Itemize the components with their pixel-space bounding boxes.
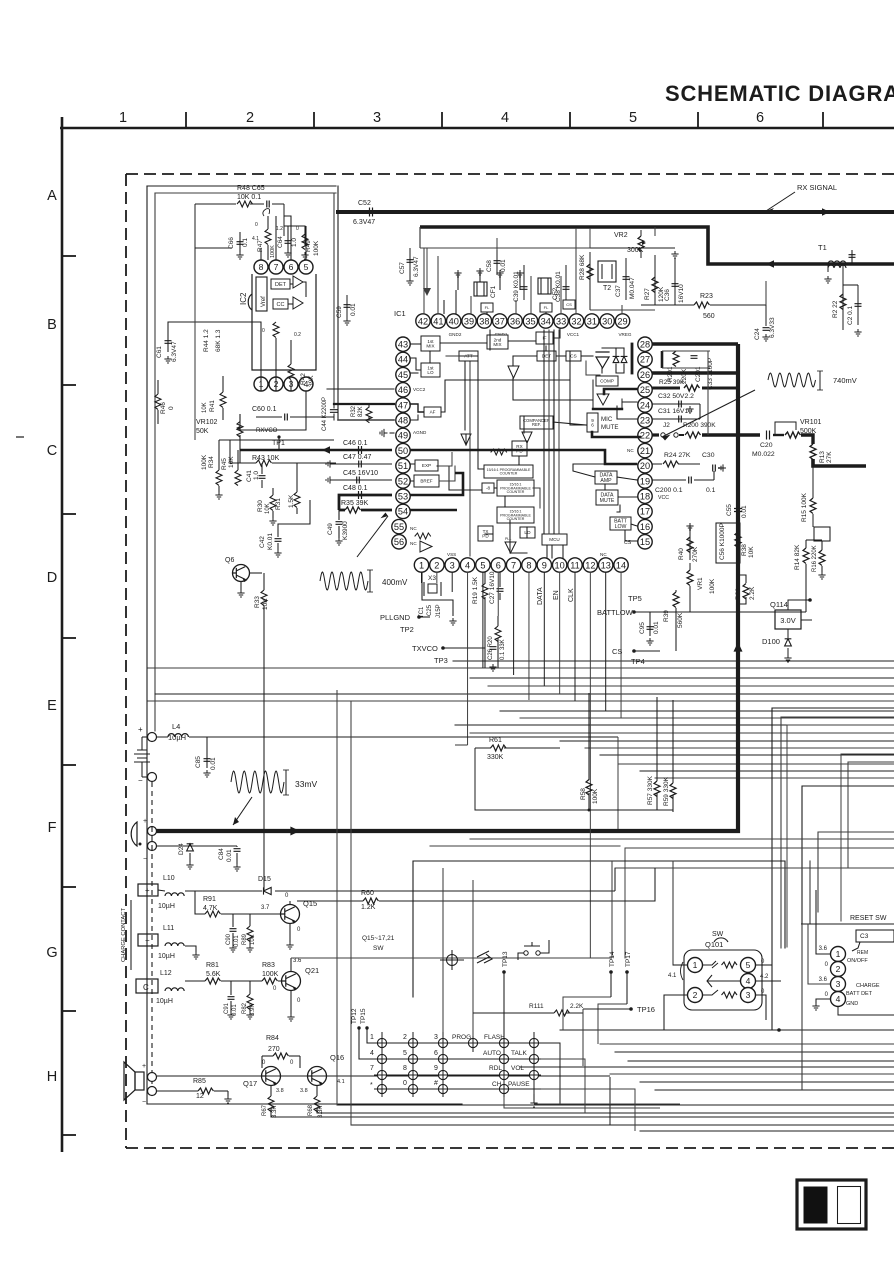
svg-text:C2 0.1: C2 0.1	[847, 305, 854, 325]
svg-text:5: 5	[403, 1050, 407, 1057]
svg-text:25: 25	[640, 385, 650, 395]
capacitor C24	[765, 305, 767, 326]
svg-text:R91: R91	[203, 896, 216, 903]
capacitor C85	[206, 737, 208, 768]
ground above R40	[686, 523, 693, 530]
key switch	[377, 1038, 386, 1047]
thick line to right	[813, 459, 866, 466]
wire lo	[526, 527, 528, 538]
resistor VR101	[785, 432, 801, 438]
svg-text:R48 C65: R48 C65	[237, 185, 265, 192]
wire corner f	[841, 754, 894, 921]
svg-text:46: 46	[398, 385, 408, 395]
resistor in Q101 a	[722, 962, 738, 968]
wire corner b2	[787, 725, 894, 947]
wire diode join	[616, 364, 624, 373]
connector pin 2	[831, 962, 846, 977]
svg-text:EXP: EXP	[422, 463, 431, 468]
ground stub	[454, 270, 461, 277]
svg-text:27: 27	[640, 355, 650, 365]
svg-text:COMP: COMP	[600, 379, 614, 384]
pin 8 IC2	[254, 260, 268, 274]
wire pin46	[327, 388, 394, 390]
resistor R23	[645, 304, 694, 306]
svg-text:52: 52	[398, 476, 408, 486]
key switch	[529, 1038, 538, 1047]
svg-text:0.01: 0.01	[500, 259, 507, 272]
svg-text:4.7K: 4.7K	[203, 905, 218, 912]
block RX PD	[512, 441, 527, 456]
wire mix-lo	[429, 351, 431, 363]
svg-text:6.3V47: 6.3V47	[353, 219, 375, 226]
svg-text:100K: 100K	[201, 454, 208, 470]
capacitor C64 resistor R49	[287, 232, 289, 250]
diode pair near pin 27	[596, 352, 609, 368]
block 2nd MIX	[487, 335, 508, 349]
ground stub	[516, 270, 523, 277]
svg-text:49: 49	[398, 431, 408, 441]
svg-text:MUTE: MUTE	[601, 424, 619, 431]
pin 11 IC1	[568, 558, 582, 572]
svg-text:21: 21	[640, 446, 650, 456]
capacitor C38	[565, 265, 567, 300]
dashed frame top	[126, 173, 894, 175]
wire pll	[510, 520, 527, 553]
svg-text:R57 330K: R57 330K	[647, 775, 654, 805]
svg-text:CH: CH	[492, 1081, 502, 1088]
svg-text:330K: 330K	[487, 754, 504, 761]
resistor R35	[345, 507, 361, 513]
svg-text:48: 48	[398, 416, 408, 426]
svg-text:0.01: 0.01	[350, 303, 357, 316]
row ticks	[62, 255, 76, 257]
svg-text:Vref: Vref	[261, 296, 267, 307]
wire pin stub	[443, 300, 445, 314]
wire diode bottom	[601, 368, 603, 373]
svg-text:R44 1.2: R44 1.2	[203, 329, 210, 352]
svg-text:13: 13	[601, 560, 611, 570]
svg-text:R201: R201	[667, 366, 674, 382]
wire trimmer	[621, 399, 623, 409]
svg-text:5.6K: 5.6K	[206, 971, 221, 978]
svg-text:0.01: 0.01	[226, 849, 233, 862]
pointer from 33mV	[233, 797, 252, 825]
capacitor C57	[409, 248, 411, 278]
Q101 contact 5	[741, 958, 756, 973]
resistor R41	[220, 392, 226, 408]
svg-text:C27 16V10: C27 16V10	[489, 571, 496, 604]
svg-text:2: 2	[434, 560, 439, 570]
wires IC2 bottom	[219, 439, 334, 441]
transformer T2	[598, 261, 616, 282]
pin 54 IC1	[396, 504, 410, 518]
svg-text:A: A	[47, 188, 57, 204]
wire bus h2	[470, 677, 894, 679]
svg-text:C32 50V2.2: C32 50V2.2	[658, 393, 694, 400]
svg-text:R14 82K: R14 82K	[794, 544, 801, 570]
wire bus h1	[148, 667, 894, 669]
svg-text:1: 1	[119, 110, 127, 126]
svg-text:0.1: 0.1	[242, 238, 249, 247]
thick wire pin50	[240, 449, 392, 452]
pin 39 IC1	[462, 314, 476, 328]
svg-text:CF1: CF1	[490, 285, 497, 298]
svg-text:0.1: 0.1	[706, 487, 716, 494]
connector pin 1	[831, 947, 846, 962]
wire mute down	[617, 505, 620, 512]
ground c32	[686, 406, 693, 413]
wire vertical pair a	[333, 193, 335, 404]
ground connector	[812, 1003, 819, 1010]
wire batt low to pin16	[631, 524, 637, 526]
svg-text:LOW: LOW	[615, 524, 627, 530]
wire pin48	[338, 419, 394, 421]
arrow up on bus	[734, 642, 743, 652]
svg-text:C59: C59	[336, 306, 343, 318]
key switch	[468, 1038, 477, 1047]
interior long verticals	[489, 330, 491, 350]
resistor R24	[652, 463, 662, 465]
svg-text:4: 4	[746, 976, 751, 986]
thick wire pin22 run	[702, 433, 760, 436]
key switch	[408, 1070, 417, 1079]
svg-text:36: 36	[510, 316, 520, 326]
svg-text:MUTE: MUTE	[600, 498, 615, 504]
resistor R47	[265, 229, 271, 244]
key switch	[438, 1054, 447, 1063]
svg-text:C41: C41	[246, 470, 253, 482]
block DATA AMP	[595, 471, 617, 484]
wires from bottom pins down	[421, 572, 423, 583]
svg-text:10K 0.1: 10K 0.1	[237, 194, 261, 201]
svg-text:C: C	[47, 443, 57, 459]
svg-text:-8: -8	[486, 486, 491, 491]
thick pin53 wire	[339, 495, 392, 510]
pin 6 IC1	[491, 558, 505, 572]
svg-text:34: 34	[541, 316, 551, 326]
svg-text:AF: AF	[430, 410, 436, 415]
wire conn pin4 left	[816, 999, 830, 1003]
pin 9 IC1	[537, 558, 551, 572]
wire ladder h7	[618, 763, 894, 765]
svg-text:C60 0.1: C60 0.1	[252, 406, 277, 413]
junction	[777, 1028, 781, 1032]
svg-text:R40: R40	[678, 548, 685, 560]
wire data mute to pin18	[618, 496, 637, 498]
wire loop left	[194, 204, 196, 260]
svg-text:D: D	[47, 570, 57, 586]
svg-text:C85: C85	[195, 756, 202, 768]
svg-text:SW: SW	[712, 931, 724, 938]
svg-text:23: 23	[640, 416, 650, 426]
wire mix-if	[508, 340, 536, 342]
svg-text:C200 0.1: C200 0.1	[655, 487, 683, 494]
capacitor C44	[331, 410, 338, 413]
svg-text:FL: FL	[485, 305, 490, 310]
wire diode top	[602, 347, 624, 349]
svg-text:TP4: TP4	[631, 657, 645, 666]
pin 23 IC1	[638, 413, 652, 427]
capacitor C39	[523, 265, 525, 300]
svg-text:C55: C55	[726, 504, 733, 516]
ceramic filter CF1	[474, 282, 487, 296]
wire bottom h1105	[337, 1104, 894, 1106]
svg-text:COUNTER: COUNTER	[507, 490, 525, 494]
svg-text:C58: C58	[486, 260, 493, 272]
svg-text:R36: R36	[735, 588, 742, 600]
svg-text:0.2: 0.2	[294, 332, 301, 338]
capacitor C36	[674, 258, 676, 305]
svg-text:33: 33	[556, 316, 566, 326]
amp triangle under DET	[508, 366, 519, 378]
wire lower h1061	[628, 1060, 894, 1062]
svg-text:RXVCO: RXVCO	[256, 428, 278, 434]
contact plus	[138, 884, 158, 896]
test point TP16	[629, 1007, 633, 1011]
wire pin20 to data amp	[573, 464, 637, 477]
svg-text:3: 3	[746, 990, 751, 1000]
svg-text:2: 2	[693, 990, 698, 1000]
svg-text:3: 3	[836, 979, 841, 989]
svg-text:6.3V47: 6.3V47	[171, 341, 178, 362]
svg-text:0.1 33K: 0.1 33K	[500, 639, 506, 660]
svg-text:22: 22	[640, 431, 650, 441]
arrow right on audio line	[290, 827, 300, 836]
resistor R40	[689, 530, 691, 560]
svg-text:TXVCO: TXVCO	[412, 644, 438, 653]
pin 2 IC1	[430, 558, 444, 572]
svg-text:R59 330K: R59 330K	[663, 776, 670, 806]
wire corner d	[818, 832, 894, 912]
svg-text:PAUSE: PAUSE	[508, 1081, 530, 1088]
svg-text:COUNTER: COUNTER	[500, 472, 518, 476]
key switch	[529, 1054, 538, 1063]
wire att to counter	[478, 361, 484, 469]
wire bus h5	[148, 700, 894, 702]
svg-text:3.6: 3.6	[819, 946, 828, 952]
svg-text:5: 5	[746, 960, 751, 970]
svg-text:4: 4	[465, 560, 470, 570]
block prog counter 2	[497, 480, 534, 496]
thick pin25 stub b	[702, 387, 738, 390]
svg-text:54: 54	[398, 507, 408, 517]
block MCU	[542, 534, 567, 545]
wire to tri	[512, 356, 514, 366]
wire VR101 wiper loop	[775, 422, 796, 435]
wire lower h1090	[655, 1089, 894, 1091]
resistor in Q101 b	[722, 992, 738, 998]
switch arm a	[703, 961, 716, 965]
svg-text:CS: CS	[570, 354, 576, 359]
svg-text:C49: C49	[327, 523, 334, 535]
contact minus	[138, 934, 158, 946]
pin 1 IC2	[254, 377, 268, 391]
svg-text:LO: LO	[427, 370, 434, 375]
thick pin26 stub	[648, 371, 738, 374]
svg-text:VR102: VR102	[196, 419, 218, 426]
momentary switch symbol	[524, 951, 528, 955]
svg-text:4: 4	[836, 994, 841, 1004]
wire long vertical b	[350, 701, 352, 1125]
wire long vertical a	[336, 690, 338, 1105]
svg-text:TP1: TP1	[272, 440, 285, 447]
svg-text:R19 1.5K: R19 1.5K	[472, 576, 479, 604]
wire c64 r49 top	[284, 226, 305, 232]
svg-text:C: C	[143, 983, 149, 992]
thick comp to pin25	[604, 389, 637, 394]
svg-text:L12: L12	[160, 970, 172, 977]
svg-text:28: 28	[640, 340, 650, 350]
svg-text:C36: C36	[664, 289, 671, 301]
ground stub	[496, 270, 503, 277]
pin 49 IC1	[396, 428, 410, 442]
svg-text:27K: 27K	[826, 451, 833, 463]
svg-text:1: 1	[836, 949, 841, 959]
svg-text:R82: R82	[242, 1002, 248, 1014]
block DET	[537, 351, 556, 361]
svg-text:0.01: 0.01	[234, 935, 240, 947]
wire corner e	[625, 848, 894, 958]
wire pin51	[333, 463, 392, 465]
ground x3	[449, 618, 456, 625]
capacitor C20	[767, 431, 770, 440]
svg-text:MCU: MCU	[549, 537, 559, 542]
wire C49	[338, 510, 340, 520]
capacitor C95	[649, 612, 651, 636]
svg-text:100K: 100K	[313, 240, 320, 256]
block IF	[536, 332, 553, 344]
svg-text:11: 11	[570, 560, 580, 570]
svg-text:39K: 39K	[308, 375, 315, 387]
pin 3 IC2	[284, 377, 298, 391]
wire att in2	[446, 355, 459, 357]
svg-text:TP12: TP12	[351, 1008, 358, 1024]
svg-text:7: 7	[370, 1065, 374, 1072]
svg-text:IC1: IC1	[394, 309, 406, 318]
wire conn left vertical	[801, 924, 803, 1090]
wire ladder h5	[585, 747, 894, 749]
wire bus h4	[155, 693, 894, 695]
wire ladder h9	[655, 777, 894, 779]
key switch	[377, 1070, 386, 1079]
svg-text:VR1: VR1	[697, 577, 704, 590]
svg-text:20: 20	[640, 461, 650, 471]
svg-text:6: 6	[496, 560, 501, 570]
vertical wire right of IC	[765, 281, 767, 305]
svg-text:Q21: Q21	[305, 966, 319, 975]
svg-text:NC: NC	[600, 552, 607, 557]
wire top inner	[155, 192, 336, 194]
MCU bundle wires	[543, 330, 545, 534]
pin 4 IC1	[460, 558, 474, 572]
R201 C201 between pins	[661, 351, 664, 368]
wire pin52	[333, 479, 392, 481]
wire conn pin3 left	[808, 924, 830, 984]
thick second line	[420, 227, 894, 264]
svg-text:R42: R42	[300, 373, 307, 385]
wire ladder h2	[455, 724, 894, 726]
pin 50 IC1	[396, 443, 410, 457]
svg-text:C91: C91	[224, 1002, 230, 1014]
pin 7 IC1	[506, 558, 520, 572]
wire lower h1044	[600, 1043, 894, 1045]
left margin line	[61, 117, 64, 1152]
svg-text:TP14: TP14	[609, 951, 616, 967]
pin 43 IC1	[396, 337, 410, 351]
svg-text:400mV: 400mV	[382, 578, 408, 587]
svg-text:C45 16V10: C45 16V10	[343, 470, 378, 477]
wire	[679, 434, 684, 436]
arrow on RX line	[822, 208, 830, 216]
svg-text:R67: R67	[262, 1104, 268, 1116]
wire L12 run	[185, 980, 205, 982]
capacitor C200	[689, 477, 692, 484]
svg-text:M0.022: M0.022	[752, 451, 775, 458]
svg-text:TP17: TP17	[625, 951, 632, 967]
svg-text:TP3: TP3	[434, 656, 448, 665]
svg-text:5: 5	[304, 262, 309, 272]
wire bottom h1117	[271, 1116, 894, 1118]
wire AF long	[441, 380, 570, 412]
pin 52 IC1	[396, 474, 410, 488]
svg-text:F: F	[48, 820, 57, 836]
waveform 400mV	[320, 572, 368, 590]
capacitor C2	[857, 285, 859, 325]
wire det in	[513, 355, 537, 357]
resistor interior	[491, 449, 507, 455]
double arrow symbol	[477, 951, 492, 963]
svg-text:R58: R58	[580, 788, 587, 800]
svg-text:0.01: 0.01	[210, 757, 217, 770]
wire c42	[278, 500, 310, 530]
pointer from waveform to pin22	[662, 390, 755, 437]
pin 20 IC1	[638, 459, 652, 473]
resistor R44	[273, 322, 279, 338]
pin 5 IC2	[299, 260, 313, 274]
svg-text:VCC: VCC	[658, 495, 669, 501]
key switch	[377, 1084, 386, 1093]
pin 18 IC1	[638, 489, 652, 503]
svg-text:2.2K: 2.2K	[749, 586, 756, 600]
wire drop	[419, 227, 421, 248]
svg-text:VREG: VREG	[618, 332, 631, 337]
wire ladder h0	[500, 710, 894, 712]
svg-text:C66: C66	[228, 237, 235, 249]
pin 30 IC1	[600, 314, 614, 328]
svg-text:TP16: TP16	[637, 1005, 655, 1014]
svg-text:2: 2	[246, 110, 254, 126]
svg-text:15: 15	[640, 537, 650, 547]
Q101 contact 4	[741, 974, 756, 989]
wire fan extra a	[504, 1097, 660, 1108]
capacitor C49	[336, 522, 343, 525]
pin 26 IC1	[638, 367, 652, 381]
svg-text:L10: L10	[163, 875, 175, 882]
svg-text:E: E	[47, 698, 57, 714]
wire r60 right	[379, 868, 655, 901]
wire mic mute feed	[570, 352, 586, 425]
svg-text:SW: SW	[373, 945, 384, 952]
wire lower h1074	[610, 1073, 894, 1075]
pin 34 IC1	[539, 314, 553, 328]
block TX PD	[478, 526, 493, 541]
key switch	[438, 1070, 447, 1079]
pin 31 IC1	[585, 314, 599, 328]
connector pin 4	[831, 992, 846, 1007]
svg-text:VR2: VR2	[614, 232, 628, 239]
switch arm b	[703, 990, 718, 995]
svg-text:9: 9	[542, 560, 547, 570]
